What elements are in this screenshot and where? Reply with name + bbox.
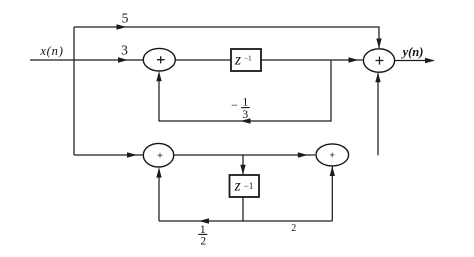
- svg-text:z: z: [234, 51, 241, 68]
- svg-text:y(n): y(n): [401, 45, 424, 59]
- svg-text:3: 3: [121, 43, 128, 58]
- svg-text:3: 3: [242, 109, 248, 121]
- svg-text:1: 1: [243, 97, 249, 109]
- svg-text:2: 2: [200, 236, 206, 248]
- svg-text:−1: −1: [244, 53, 252, 62]
- svg-text:2: 2: [291, 223, 296, 234]
- svg-text:5: 5: [122, 10, 129, 25]
- svg-text:z: z: [234, 177, 241, 194]
- svg-text:−: −: [231, 98, 238, 112]
- svg-text:x(n): x(n): [39, 44, 63, 58]
- svg-text:−1: −1: [244, 181, 254, 191]
